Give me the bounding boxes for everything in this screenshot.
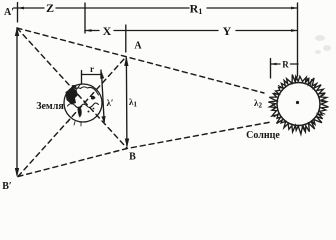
arrowhead top row right	[291, 7, 298, 10]
svg-text:Солнце: Солнце	[246, 130, 280, 141]
R left tick down to corona	[270, 59, 272, 79]
svg-text:λ′: λ′	[107, 98, 114, 108]
r dimension line above Earth	[82, 74, 102, 76]
dashed line B' to A through Earth	[18, 57, 126, 177]
arrowhead second row right	[291, 29, 298, 32]
arrowhead top row left	[18, 7, 25, 10]
dashed sight line A' to Sun through A	[17, 28, 264, 93]
lambda-prime vertical double arrow right of Earth	[102, 73, 105, 122]
svg-text:r: r	[90, 64, 94, 74]
svg-text:X: X	[103, 24, 112, 38]
dimension line Y (right part of second row)	[236, 30, 298, 32]
extension tick at x=125.8 down to point A	[125, 25, 127, 52]
svg-text:Y: Y	[223, 24, 232, 38]
svg-text:Z: Z	[46, 1, 54, 15]
Earth globe outline	[64, 84, 102, 122]
right vertical line through sun centre	[297, 3, 299, 76]
svg-text:A: A	[134, 41, 142, 52]
R dimension line over sun	[271, 63, 281, 65]
svg-text:λ1: λ1	[129, 97, 137, 109]
svg-text:R: R	[282, 60, 289, 70]
dimension line R1 (right part of top row)	[207, 7, 298, 9]
Earth shading hatches bottom	[68, 119, 81, 126]
dashed sight line B' to Sun through B	[18, 122, 271, 177]
svg-text:Земля: Земля	[36, 101, 64, 112]
dimension line X (left part of second row)	[85, 30, 99, 32]
dashed line A' to B through Earth	[17, 28, 127, 148]
Sun spiky corona	[268, 75, 328, 135]
Sun centre dot	[296, 101, 299, 104]
extension tick top-left at A'	[17, 3, 19, 23]
r left tick	[81, 71, 83, 84]
svg-text:λ2: λ2	[254, 98, 262, 110]
svg-text:R1: R1	[190, 2, 203, 17]
r right tick	[100, 70, 102, 78]
svg-text:B′: B′	[2, 181, 12, 192]
vertical double arrow A-B	[125, 58, 128, 146]
faint bleed-through smudges top right	[315, 35, 331, 54]
svg-text:A′: A′	[4, 7, 14, 18]
Sun body circle	[277, 83, 320, 126]
Earth continents	[66, 89, 79, 105]
svg-text:B: B	[129, 152, 136, 163]
dimension line Z (left part of top row)	[14, 7, 45, 9]
arrowhead second row left	[85, 29, 92, 32]
left vertical double arrow A'-B'	[16, 29, 18, 175]
extension tick middle (between Z and R1)	[84, 3, 86, 33]
arrowhead R left	[271, 63, 277, 66]
Sun corona scratch ticks	[272, 76, 326, 131]
